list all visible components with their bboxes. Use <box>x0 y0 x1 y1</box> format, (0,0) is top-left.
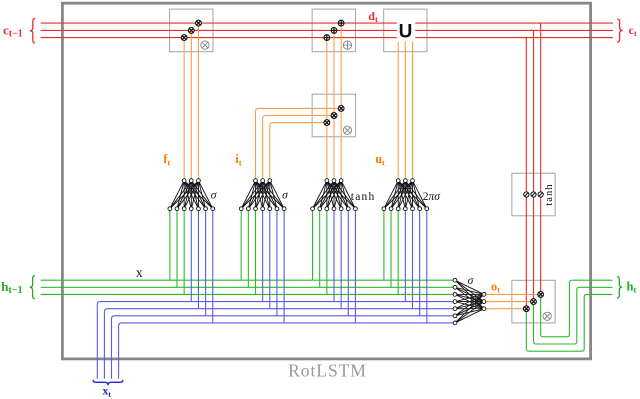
wire blue drop cluster1-3 <box>205 211 207 316</box>
wire c_t branch down 3 <box>538 23 541 294</box>
label U rotation <box>399 21 413 42</box>
dense layer sigma f <box>168 179 215 211</box>
wire u_t rotation column 1 <box>397 40 399 179</box>
brace h_{t-1} <box>30 276 35 299</box>
brace c_{t-1} <box>30 18 35 43</box>
wire h_t return 1 <box>541 280 613 337</box>
outer cell frame <box>62 3 590 359</box>
multiply node o2 <box>531 299 537 305</box>
box forget-gate multiply (f*c) <box>170 9 213 52</box>
wire blue drop cluster2-3 <box>276 211 278 316</box>
svg-text:RotLSTM: RotLSTM <box>288 360 367 380</box>
label tanh rotated <box>544 183 555 205</box>
wire c_t branch down 1 <box>524 38 527 309</box>
label h_{t-1} <box>1 279 22 296</box>
wire i_t elbow 2 <box>263 116 334 179</box>
svg-text:tanh: tanh <box>544 183 555 205</box>
wire green drop cluster2-1 <box>240 211 242 281</box>
wire blue drop cluster1-4 <box>212 211 214 323</box>
add node a2 <box>331 28 337 34</box>
wire blue drop cluster3-2 <box>340 211 342 309</box>
label sigma right <box>468 275 475 287</box>
wire green drop cluster2-2 <box>247 211 249 288</box>
wire green drop cluster4-3 <box>397 211 399 295</box>
box output multiply (o*tanh) <box>512 280 555 323</box>
wire blue drop cluster4-4 <box>426 211 428 323</box>
multiply node i3 <box>324 120 330 126</box>
wire h_t return 2 <box>534 287 613 344</box>
svg-text:2πσ: 2πσ <box>423 191 442 203</box>
label sigma 2 <box>282 190 289 202</box>
dense layer sigma i <box>239 179 286 211</box>
multiply node i2 <box>331 113 337 119</box>
label i_t <box>235 152 241 167</box>
brace x_t <box>93 380 123 385</box>
box add gate (i*u + f*c) <box>312 9 355 52</box>
multiply node i1 <box>338 106 344 112</box>
svg-text:U: U <box>399 21 413 42</box>
label tanh <box>351 191 376 203</box>
wire x_t input 2 <box>104 309 453 379</box>
wire h_{t-1} line 2 <box>41 286 454 288</box>
wire o_t line 2 <box>486 301 534 303</box>
tanh node t2 <box>531 192 536 197</box>
add node a3 <box>338 20 344 26</box>
wire f_t column 1 <box>183 38 185 179</box>
wire c_t branch down 2 <box>531 30 534 301</box>
wire blue drop cluster4-1 <box>404 211 406 302</box>
legend oplus box2 <box>343 41 351 49</box>
wire i_t elbow 3 <box>270 123 327 179</box>
wire blue drop cluster1-2 <box>197 211 199 309</box>
label x bus <box>136 265 143 280</box>
label u_t <box>375 152 385 167</box>
svg-text:x: x <box>136 265 143 280</box>
wire green drop cluster2-3 <box>255 211 257 295</box>
wire h_{t-1} line 1 <box>41 279 454 281</box>
wire green drop cluster3-1 <box>312 211 314 281</box>
label c_t <box>629 23 637 38</box>
multiply node f1 <box>181 35 187 41</box>
wire o_t line 1 <box>486 293 541 295</box>
dense layer tanh candidate <box>311 179 358 211</box>
multiply node o3 <box>523 306 529 312</box>
label sigma 1 <box>211 190 218 202</box>
wire blue drop cluster2-2 <box>269 211 271 309</box>
wire blue drop cluster2-1 <box>262 211 264 302</box>
wire candidate column 3 <box>340 23 342 179</box>
wire blue drop cluster1-1 <box>190 211 192 302</box>
multiply node f2 <box>188 28 194 34</box>
wire candidate column 2 <box>333 30 335 178</box>
tanh node t3 <box>538 192 543 197</box>
wire green drop cluster4-2 <box>390 211 392 288</box>
multiply node o1 <box>538 292 544 298</box>
wire u_t rotation column 2 <box>404 40 406 179</box>
wire green drop cluster3-2 <box>319 211 321 288</box>
tanh node t1 <box>524 192 529 197</box>
dense layer sigma o (rotated) <box>453 278 486 324</box>
legend otimes box3 <box>343 126 351 134</box>
wire x_t input 1 <box>97 302 453 379</box>
label d_t <box>368 9 378 24</box>
legend otimes box1 <box>201 41 209 49</box>
wire o_t line 3 <box>486 308 527 310</box>
wire f_t column 3 <box>197 23 199 179</box>
wire green drop cluster1-3 <box>183 211 185 295</box>
U letter background <box>397 19 416 42</box>
dense layer 2pi-sigma rotation <box>382 179 429 211</box>
wire blue drop cluster4-3 <box>419 211 421 316</box>
wire blue drop cluster2-4 <box>283 211 285 323</box>
wire green drop cluster1-2 <box>176 211 178 288</box>
label o_t <box>491 280 500 295</box>
box input multiply (i*u) <box>312 94 355 137</box>
wire green drop cluster3-3 <box>326 211 328 295</box>
wire candidate column 1 <box>326 38 328 179</box>
label c_{t-1} <box>3 22 23 39</box>
wire green drop cluster4-1 <box>383 211 385 281</box>
wire blue drop cluster3-4 <box>354 211 356 323</box>
wire green drop cluster1-1 <box>169 211 171 281</box>
label f_t <box>163 152 170 167</box>
wire h_t return 3 <box>526 294 612 351</box>
wire x_t input 3 <box>112 316 454 379</box>
wire i_t elbow 1 <box>256 108 342 178</box>
wire c_{t-1} line 1 <box>41 22 613 24</box>
wire h_{t-1} line 3 <box>41 293 454 295</box>
box tanh elementwise <box>512 173 555 216</box>
wire c_{t-1} line 3 <box>41 37 613 39</box>
label h_t <box>627 280 637 295</box>
wire f_t column 2 <box>190 30 192 178</box>
brace h_t <box>617 277 622 299</box>
label 2-pi-sigma <box>423 191 442 203</box>
legend otimes output box <box>543 312 551 320</box>
wire blue drop cluster3-1 <box>333 211 335 302</box>
multiply node f3 <box>196 20 202 26</box>
wire x_t input 4 <box>119 323 454 379</box>
svg-text:tanh: tanh <box>351 191 376 203</box>
label x_t <box>103 386 112 399</box>
wire blue drop cluster3-3 <box>347 211 349 316</box>
brace c_t <box>617 19 622 42</box>
wire u_t rotation column 3 <box>412 40 414 179</box>
label RotLSTM <box>288 360 367 380</box>
add node a1 <box>324 35 330 41</box>
wire c_{t-1} line 2 <box>41 29 613 31</box>
wire blue drop cluster4-2 <box>412 211 414 309</box>
box rotation U <box>384 9 427 52</box>
